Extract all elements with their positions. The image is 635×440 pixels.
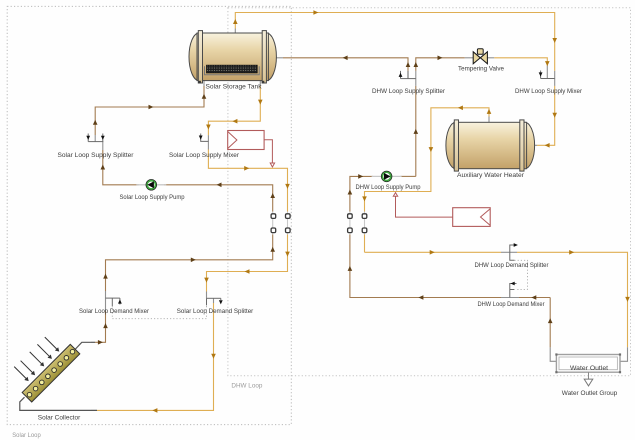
svg-text:DHW Loop Demand Splitter: DHW Loop Demand Splitter: [475, 262, 550, 269]
svg-text:DHW Loop Supply Mixer: DHW Loop Supply Mixer: [515, 88, 583, 95]
svg-text:Water Outlet Group: Water Outlet Group: [562, 390, 618, 397]
svg-text:DHW Loop Supply Splitter: DHW Loop Supply Splitter: [372, 88, 446, 95]
svg-text:Solar Loop Supply Mixer: Solar Loop Supply Mixer: [169, 152, 240, 159]
svg-text:DHW Loop: DHW Loop: [231, 383, 262, 390]
svg-text:Solar Loop Demand Splitter: Solar Loop Demand Splitter: [177, 308, 254, 315]
svg-text:Solar Loop Demand Mixer: Solar Loop Demand Mixer: [79, 308, 150, 315]
svg-text:Solar Storage Tank: Solar Storage Tank: [206, 84, 263, 91]
svg-text:Tempering Valve: Tempering Valve: [458, 65, 504, 72]
svg-text:Solar Loop Supply Pump: Solar Loop Supply Pump: [120, 194, 185, 201]
svg-text:DHW Loop Demand Mixer: DHW Loop Demand Mixer: [478, 301, 546, 308]
svg-text:Solar Loop: Solar Loop: [12, 432, 41, 439]
svg-text:Auxiliary Water Heater: Auxiliary Water Heater: [457, 172, 525, 179]
svg-text:Water Outlet: Water Outlet: [570, 365, 608, 372]
svg-text:DHW Loop Supply Pump: DHW Loop Supply Pump: [356, 184, 421, 191]
svg-text:Solar Loop Supply Splitter: Solar Loop Supply Splitter: [58, 152, 135, 159]
svg-text:Solar Collector: Solar Collector: [38, 414, 81, 421]
